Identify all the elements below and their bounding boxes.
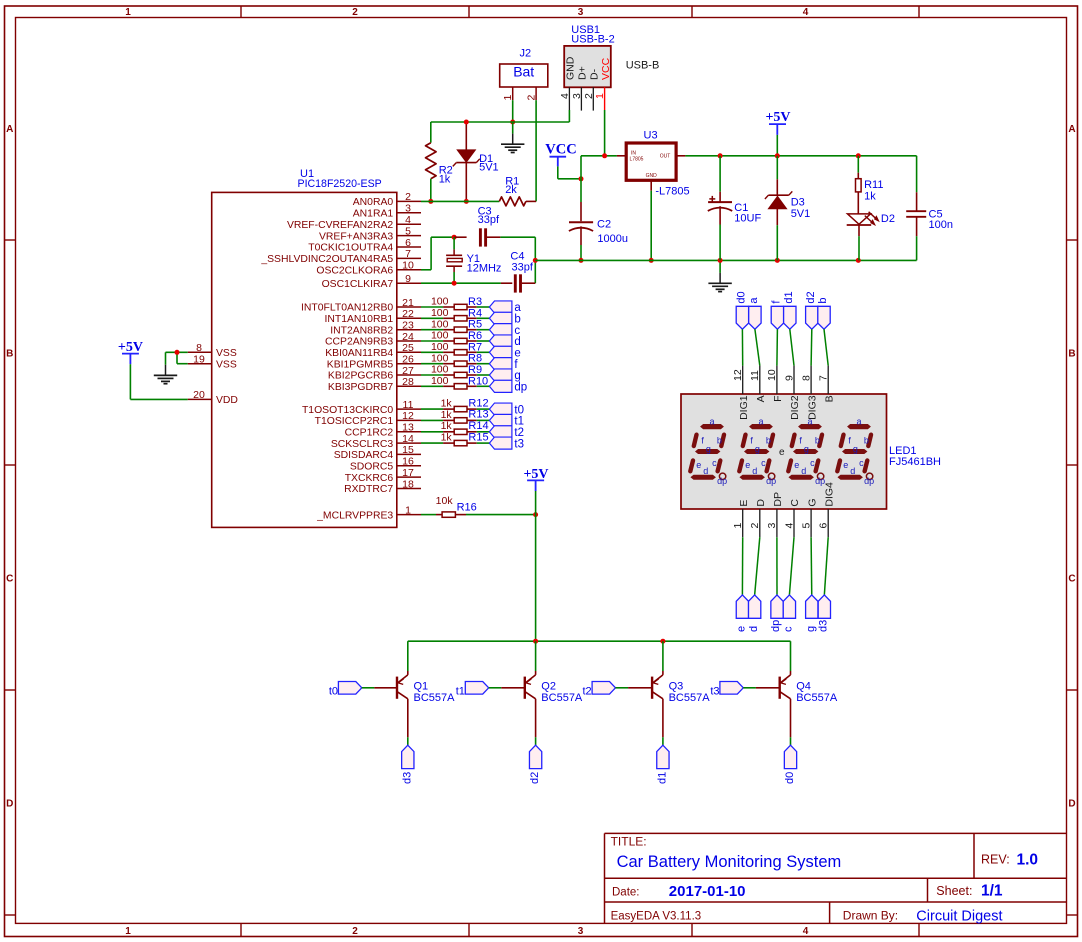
svg-text:16: 16 <box>402 456 414 468</box>
svg-text:D: D <box>6 798 13 809</box>
svg-text:a: a <box>514 302 521 314</box>
wire base <box>362 687 397 689</box>
LED1 pin 10 F <box>766 366 784 402</box>
ground under rail <box>708 260 731 291</box>
svg-text:REV:: REV: <box>981 853 1010 867</box>
svg-text:INT2AN8RB2: INT2AN8RB2 <box>330 325 393 336</box>
svg-text:A: A <box>755 395 767 402</box>
svg-text:D: D <box>1068 798 1075 809</box>
svg-text:D: D <box>755 499 767 507</box>
svg-text:5V1: 5V1 <box>479 162 499 174</box>
LED1 pin 6 DIG4 <box>818 482 836 537</box>
wire J2 pin1 down <box>512 100 514 122</box>
svg-text:D2: D2 <box>881 213 895 225</box>
svg-text:1k: 1k <box>441 409 453 421</box>
svg-text:USB-B: USB-B <box>626 59 660 71</box>
connector J2 Bat <box>500 48 548 88</box>
zener diode D3 5V1 <box>765 156 810 261</box>
svg-text:Q4: Q4 <box>796 681 811 693</box>
svg-text:d: d <box>514 336 520 348</box>
wire U1 pin to R12 <box>421 408 443 410</box>
resistor R10 100 <box>431 375 488 389</box>
U1 pin 23 INT2AN8RB2 <box>330 320 421 337</box>
U1 pin 6 T0CKIC1OUTRA4 <box>308 237 421 254</box>
svg-text:b: b <box>817 297 829 303</box>
svg-text:Bat: Bat <box>513 64 534 80</box>
svg-text:d2: d2 <box>805 291 817 303</box>
net port a <box>489 301 521 314</box>
wire +5V rail <box>685 155 916 157</box>
svg-text:d: d <box>748 626 760 632</box>
svg-text:C2: C2 <box>597 218 611 230</box>
svg-text:1k: 1k <box>439 173 451 185</box>
svg-text:D-: D- <box>589 68 601 80</box>
LED1 pin 4 C <box>783 499 801 538</box>
LED1 pin 9 DIG2 <box>783 366 801 420</box>
svg-text:4: 4 <box>783 523 795 529</box>
svg-text:t3: t3 <box>710 685 719 697</box>
svg-text:1: 1 <box>125 926 131 937</box>
wire transistor emitter bus <box>408 640 791 642</box>
svg-text:25: 25 <box>402 342 414 354</box>
svg-text:100: 100 <box>431 375 449 387</box>
net port e <box>489 346 520 359</box>
svg-text:t1: t1 <box>456 685 465 697</box>
svg-text:100n: 100n <box>929 219 953 231</box>
wire <box>477 385 490 387</box>
wire <box>477 317 490 319</box>
wire <box>741 329 743 365</box>
wire <box>477 408 490 410</box>
svg-text:100: 100 <box>431 352 449 364</box>
net port g <box>805 595 818 632</box>
svg-text:R13: R13 <box>468 409 488 421</box>
svg-text:d3: d3 <box>401 772 413 784</box>
svg-text:1k: 1k <box>441 432 453 444</box>
svg-text:b: b <box>514 314 520 326</box>
junction <box>649 258 654 263</box>
svg-text:e: e <box>745 460 750 470</box>
svg-text:6: 6 <box>405 237 411 249</box>
LED1 digit 2 segments <box>739 416 776 486</box>
svg-text:g: g <box>804 444 809 454</box>
svg-text:4: 4 <box>559 93 571 99</box>
transistor Q4 BC557A <box>780 641 838 737</box>
net port d <box>489 335 520 348</box>
net port d3 <box>818 595 831 632</box>
svg-text:VREF+AN3RA3: VREF+AN3RA3 <box>319 231 393 242</box>
svg-text:e: e <box>514 348 520 360</box>
svg-text:C: C <box>1068 573 1075 584</box>
wire USB GND down <box>513 110 570 122</box>
LED1 digit 4 segments <box>837 416 874 486</box>
svg-text:Drawn By:: Drawn By: <box>843 909 898 923</box>
capacitor C3 33pf <box>454 206 500 247</box>
svg-text:SDORC5: SDORC5 <box>350 462 394 473</box>
svg-text:VDD: VDD <box>216 395 238 406</box>
USB1 pin 1 VCC <box>594 57 612 110</box>
svg-text:Q1: Q1 <box>414 681 429 693</box>
net port a <box>748 297 761 330</box>
wire <box>776 329 779 365</box>
svg-text:3: 3 <box>578 7 584 18</box>
resistor R3 100 <box>431 296 482 310</box>
resistor R6 100 <box>431 330 482 344</box>
net port d1 <box>783 291 796 329</box>
svg-text:INT1AN10RB1: INT1AN10RB1 <box>324 314 393 325</box>
svg-text:33pf: 33pf <box>478 214 500 226</box>
junction <box>718 258 723 263</box>
junction <box>510 120 515 125</box>
junction <box>464 120 469 125</box>
resistor R14 1k <box>441 420 489 435</box>
voltage regulator U3 -L7805 <box>617 130 690 198</box>
svg-text:c: c <box>514 325 520 337</box>
wire C3 to ground riser <box>500 237 535 283</box>
svg-text:d: d <box>752 466 757 476</box>
svg-text:c: c <box>783 626 795 632</box>
svg-text:_MCLRVPPRE3: _MCLRVPPRE3 <box>316 510 393 521</box>
svg-text:100: 100 <box>431 330 449 342</box>
svg-text:C: C <box>6 573 13 584</box>
U1 pin 18 RXDTRC7 <box>344 478 421 495</box>
wire base <box>743 687 779 689</box>
net port t2 <box>489 426 524 439</box>
net port d2 <box>805 291 818 329</box>
wire J2 pin2 down to R1 <box>535 100 537 201</box>
svg-text:Circuit Digest: Circuit Digest <box>916 908 1002 924</box>
svg-text:d: d <box>703 466 708 476</box>
svg-text:U3: U3 <box>644 130 658 142</box>
wire <box>824 329 828 365</box>
svg-text:BC557A: BC557A <box>414 692 456 704</box>
svg-text:VSS: VSS <box>216 360 237 371</box>
svg-text:10k: 10k <box>436 495 454 507</box>
svg-text:e: e <box>843 460 848 470</box>
U1 pin 25 KBI0AN11RB4 <box>325 342 421 359</box>
svg-text:T1OSOT13CKIRC0: T1OSOT13CKIRC0 <box>302 405 393 416</box>
resistor R12 1k <box>441 397 489 412</box>
svg-text:100: 100 <box>431 341 449 353</box>
capacitor C5 100n <box>906 156 953 261</box>
title block <box>605 833 1067 924</box>
wire collector down <box>407 737 409 745</box>
LED D2 <box>847 212 895 261</box>
net port t3 <box>710 682 743 698</box>
wire VSS pin 8 <box>166 351 188 353</box>
wire <box>477 329 490 331</box>
wire R16 to +5V riser <box>466 514 536 516</box>
wire U1 pin to R13 <box>421 419 443 421</box>
svg-text:15: 15 <box>402 444 414 456</box>
svg-text:_SSHLVDINC2OUTAN4RA5: _SSHLVDINC2OUTAN4RA5 <box>260 254 393 265</box>
wire U1 pin to R14 <box>421 431 443 433</box>
svg-text:a: a <box>748 297 760 304</box>
svg-text:1: 1 <box>594 93 606 99</box>
svg-text:AN0RA0: AN0RA0 <box>353 197 394 208</box>
svg-text:100: 100 <box>431 307 449 319</box>
U1 pin 5 VREF+AN3RA3 <box>319 225 421 242</box>
U1 pin 14 SCKSCLRC3 <box>331 433 421 450</box>
wire <box>776 537 778 595</box>
power +5V (VDD) <box>118 340 143 364</box>
svg-text:c: c <box>761 458 766 468</box>
U1 pin 9 OSC1CLKIRA7 <box>322 273 421 290</box>
svg-text:A: A <box>6 124 13 135</box>
wire <box>477 306 490 308</box>
svg-text:8: 8 <box>800 375 812 381</box>
U1 pin 13 CCP1RC2 <box>345 422 421 439</box>
svg-text:3: 3 <box>405 203 411 215</box>
svg-text:9: 9 <box>405 273 411 285</box>
resistor R5 100 <box>431 318 482 332</box>
svg-text:C: C <box>789 499 801 507</box>
svg-text:1000u: 1000u <box>597 233 628 245</box>
net port d1 <box>656 745 669 784</box>
svg-text:23: 23 <box>402 320 414 332</box>
svg-text:KBI0AN11RB4: KBI0AN11RB4 <box>325 348 393 359</box>
net port f <box>771 300 784 330</box>
svg-text:CCP1RC2: CCP1RC2 <box>345 428 394 439</box>
resistor R7 100 <box>431 341 482 355</box>
junction <box>660 639 665 644</box>
svg-text:18: 18 <box>402 478 414 490</box>
zener diode D1 5V1 <box>453 122 499 201</box>
LED1 digit 1 segments <box>690 416 727 486</box>
microcontroller U1 PIC18F2520-ESP <box>212 168 397 527</box>
svg-text:EasyEDA V3.11.3: EasyEDA V3.11.3 <box>611 911 702 923</box>
svg-text:9: 9 <box>783 375 795 381</box>
wire U1 pin 1 to R16 <box>421 514 436 516</box>
junction <box>533 639 538 644</box>
U1 pin 15 SDISDARC4 <box>334 444 421 461</box>
U1 pin 2 AN0RA0 <box>353 191 421 208</box>
svg-text:DIG1: DIG1 <box>738 395 750 420</box>
wire U1 pin to R4 <box>421 317 443 319</box>
wire +5V symbol down <box>776 135 778 156</box>
svg-text:TITLE:: TITLE: <box>611 835 647 849</box>
svg-text:F: F <box>772 395 784 401</box>
svg-text:1.0: 1.0 <box>1017 852 1039 869</box>
junction <box>718 153 723 158</box>
svg-text:dp: dp <box>514 382 527 394</box>
svg-text:B: B <box>6 348 13 359</box>
svg-text:DIG4: DIG4 <box>823 482 835 507</box>
net port d2 <box>529 745 542 784</box>
svg-text:3: 3 <box>766 523 778 529</box>
power +5V <box>523 467 548 491</box>
U1 pin 26 KBI1PGMRB5 <box>327 354 421 371</box>
svg-text:d1: d1 <box>656 772 668 784</box>
wire <box>477 419 490 421</box>
svg-text:dp: dp <box>717 476 727 486</box>
svg-text:d0: d0 <box>736 291 748 303</box>
wire pin 9 net <box>421 282 501 284</box>
resistor R9 100 <box>431 364 482 378</box>
wire U3 GND down <box>650 191 652 261</box>
svg-text:1k: 1k <box>441 398 453 410</box>
svg-text:USB-B-2: USB-B-2 <box>571 34 614 46</box>
net port d0 <box>784 745 797 784</box>
svg-text:Date:: Date: <box>612 886 640 898</box>
svg-text:b: b <box>864 435 869 445</box>
capacitor C2 1000u <box>569 179 628 261</box>
U1 pin 24 CCP2AN9RB3 <box>325 331 421 348</box>
U1 pin 11 T1OSOT13CKIRC0 <box>302 399 421 416</box>
wire USB VCC down <box>604 110 606 156</box>
wire collector down <box>535 737 537 745</box>
wire <box>755 329 760 365</box>
wire VSS pin 19 <box>177 352 188 363</box>
svg-text:b: b <box>815 435 820 445</box>
svg-text:VCC: VCC <box>600 57 612 80</box>
U1 pin 3 AN1RA1 <box>353 203 421 220</box>
svg-text:33pf: 33pf <box>512 261 534 273</box>
svg-text:e: e <box>736 626 748 632</box>
svg-text:1/1: 1/1 <box>981 883 1003 900</box>
svg-text:20: 20 <box>193 389 205 401</box>
wire <box>477 374 490 376</box>
net port t2 <box>583 682 616 698</box>
capacitor C4 33pf <box>501 251 535 293</box>
net port e <box>736 595 749 632</box>
svg-text:R16: R16 <box>457 502 477 514</box>
wire battery net y122 <box>431 121 513 123</box>
svg-text:L7805: L7805 <box>630 157 644 163</box>
svg-text:2: 2 <box>352 7 358 18</box>
svg-text:7: 7 <box>405 248 411 260</box>
svg-text:2: 2 <box>526 95 538 101</box>
wire <box>477 340 490 342</box>
USB1 pin 4 GND <box>559 56 577 110</box>
svg-text:d: d <box>850 466 855 476</box>
svg-text:J2: J2 <box>520 48 532 60</box>
svg-text:5: 5 <box>405 225 411 237</box>
wire U1 pin to R8 <box>421 363 443 365</box>
svg-text:R15: R15 <box>468 431 488 443</box>
resistor R15 1k <box>441 431 489 446</box>
svg-text:g: g <box>706 444 711 454</box>
svg-text:2: 2 <box>405 191 411 203</box>
net port b <box>489 312 520 325</box>
svg-text:6: 6 <box>818 523 830 529</box>
wire pin 10 to crystal net <box>421 237 454 270</box>
svg-text:OUT: OUT <box>660 154 671 160</box>
svg-text:e: e <box>794 460 799 470</box>
wire <box>477 431 490 433</box>
svg-text:a: a <box>856 416 861 426</box>
svg-text:2: 2 <box>352 926 358 937</box>
svg-text:dp: dp <box>770 620 782 632</box>
net port dp <box>489 380 527 393</box>
svg-text:KBI3PGDRB7: KBI3PGDRB7 <box>328 382 393 393</box>
svg-text:t1: t1 <box>514 416 524 428</box>
svg-text:d3: d3 <box>818 620 830 632</box>
svg-text:-L7805: -L7805 <box>655 186 689 198</box>
svg-text:BC557A: BC557A <box>796 692 838 704</box>
svg-text:VREF-CVREFAN2RA2: VREF-CVREFAN2RA2 <box>287 220 393 231</box>
svg-text:a: a <box>709 416 714 426</box>
svg-text:RXDTRC7: RXDTRC7 <box>344 484 393 495</box>
svg-text:19: 19 <box>193 353 205 365</box>
svg-text:11: 11 <box>403 399 414 411</box>
svg-text:G: G <box>806 498 818 506</box>
wire <box>824 537 828 595</box>
svg-text:GND: GND <box>565 56 577 80</box>
svg-text:d1: d1 <box>783 291 795 303</box>
U1 pin 8 VSS <box>188 342 237 359</box>
svg-text:PIC18F2520-ESP: PIC18F2520-ESP <box>298 178 382 190</box>
svg-text:100: 100 <box>431 296 449 308</box>
svg-text:d0: d0 <box>784 772 796 784</box>
svg-text:B: B <box>823 395 835 402</box>
net port f <box>489 358 518 371</box>
net port dp <box>770 595 783 632</box>
svg-text:DIG2: DIG2 <box>789 395 801 420</box>
svg-text:4: 4 <box>803 7 809 18</box>
resistor R16 10k <box>436 495 477 517</box>
wire <box>755 537 760 595</box>
svg-text:b: b <box>717 435 722 445</box>
net port t0 <box>329 682 362 698</box>
svg-text:R11: R11 <box>864 179 883 191</box>
svg-text:t0: t0 <box>514 404 524 416</box>
svg-text:DP: DP <box>772 492 784 507</box>
ground under J2 <box>501 122 524 153</box>
net port d3 <box>401 745 414 784</box>
net port g <box>489 369 520 382</box>
svg-text:c: c <box>859 458 864 468</box>
wire U1 pin to R7 <box>421 351 443 353</box>
ground rail <box>535 259 916 261</box>
net port c <box>489 324 520 337</box>
wire U1 pin to R15 <box>421 442 443 444</box>
wire U1 pin to R10 <box>421 385 443 387</box>
U1 pin 22 INT1AN10RB1 <box>324 308 421 325</box>
svg-text:t2: t2 <box>514 427 524 439</box>
svg-text:d: d <box>801 466 806 476</box>
resistor R11 1k <box>856 156 884 214</box>
LED1 pin 3 DP <box>766 492 784 537</box>
svg-text:8: 8 <box>196 342 202 354</box>
resistor R2 1k <box>426 122 453 201</box>
resistor R4 100 <box>431 307 482 321</box>
svg-text:10: 10 <box>766 369 778 381</box>
svg-text:t3: t3 <box>514 438 524 450</box>
junction <box>775 153 780 158</box>
svg-text:Sheet:: Sheet: <box>936 884 972 898</box>
power VCC <box>545 141 576 166</box>
wire VCC to C2 node <box>558 166 581 178</box>
svg-text:D+: D+ <box>577 66 589 80</box>
svg-text:TXCKRC6: TXCKRC6 <box>345 473 394 484</box>
LED1 pin 8 DIG3 <box>800 366 818 420</box>
U1 pin 20 VDD <box>188 389 238 406</box>
svg-text:R12: R12 <box>468 397 488 409</box>
crystal Y1 12MHz <box>446 237 501 283</box>
junction <box>533 512 538 517</box>
svg-text:dp: dp <box>766 476 776 486</box>
svg-text:KBI2PGCRB6: KBI2PGCRB6 <box>328 371 393 382</box>
LED1 pin 11 A <box>749 366 767 403</box>
svg-text:VCC: VCC <box>545 141 576 157</box>
svg-text:24: 24 <box>402 331 414 343</box>
transistor Q3 BC557A <box>652 641 710 737</box>
display LED1 FJ5461BH <box>681 394 941 509</box>
svg-text:a: a <box>758 416 763 426</box>
U1 pin 17 TXCKRC6 <box>345 467 421 484</box>
svg-text:T1OSICCP2RC1: T1OSICCP2RC1 <box>315 416 394 427</box>
